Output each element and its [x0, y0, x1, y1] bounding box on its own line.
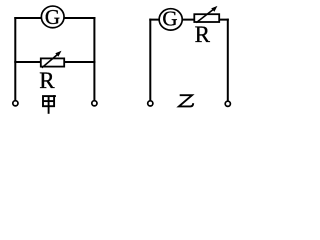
svg-text:G: G — [45, 5, 60, 29]
svg-text:R: R — [195, 22, 211, 47]
svg-text:G: G — [162, 6, 177, 30]
svg-text:R: R — [39, 68, 55, 93]
